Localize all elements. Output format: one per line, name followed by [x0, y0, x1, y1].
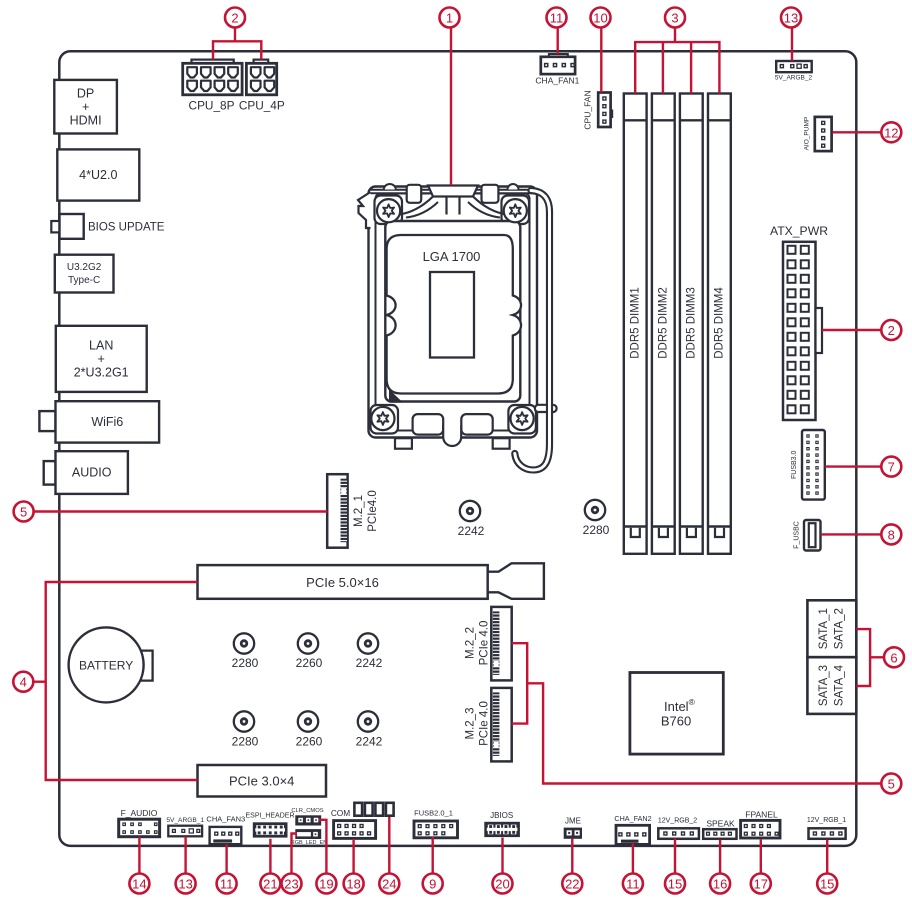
- svg-text:CHA_FAN2: CHA_FAN2: [614, 814, 651, 823]
- svg-text:F_USBC: F_USBC: [794, 521, 801, 549]
- svg-text:+: +: [98, 352, 105, 366]
- svg-text:1: 1: [446, 11, 453, 26]
- svg-text:DDR5 DIMM2: DDR5 DIMM2: [658, 287, 670, 359]
- svg-text:DP: DP: [77, 87, 94, 101]
- svg-text:10: 10: [593, 11, 607, 26]
- svg-text:8: 8: [888, 527, 895, 542]
- svg-text:+: +: [82, 100, 89, 114]
- svg-text:2260: 2260: [296, 656, 323, 670]
- svg-text:6: 6: [890, 650, 897, 665]
- svg-text:3: 3: [671, 11, 678, 26]
- svg-text:WiFi6: WiFi6: [91, 415, 123, 429]
- svg-text:U3.2G2: U3.2G2: [67, 262, 102, 273]
- svg-text:14: 14: [132, 877, 146, 892]
- svg-text:7: 7: [888, 460, 895, 475]
- svg-text:FPANEL: FPANEL: [745, 809, 778, 819]
- svg-text:24: 24: [382, 877, 396, 892]
- svg-text:13: 13: [784, 11, 798, 26]
- svg-text:13: 13: [178, 877, 192, 892]
- svg-text:5: 5: [888, 777, 895, 792]
- svg-text:16: 16: [713, 877, 727, 892]
- svg-text:2*U3.2G1: 2*U3.2G1: [74, 365, 129, 379]
- svg-text:11: 11: [550, 11, 564, 26]
- svg-text:12V_RGB_1: 12V_RGB_1: [807, 817, 846, 824]
- svg-text:PCIe4.0: PCIe4.0: [367, 490, 379, 532]
- svg-text:LGA 1700: LGA 1700: [423, 249, 481, 264]
- svg-text:SATA_4: SATA_4: [834, 664, 846, 706]
- svg-text:22: 22: [565, 877, 579, 892]
- svg-text:BATTERY: BATTERY: [79, 658, 133, 672]
- svg-text:AIO_PUMP: AIO_PUMP: [803, 117, 810, 151]
- svg-text:CPU_8P: CPU_8P: [189, 98, 235, 112]
- svg-text:DDR5 DIMM4: DDR5 DIMM4: [714, 287, 726, 359]
- svg-text:B760: B760: [661, 714, 691, 729]
- svg-text:PCIe 4.0: PCIe 4.0: [478, 701, 490, 746]
- svg-text:2280: 2280: [583, 523, 610, 537]
- svg-text:FUSB3.0: FUSB3.0: [791, 450, 798, 479]
- svg-text:2280: 2280: [232, 734, 259, 748]
- svg-text:PCIe 5.0×16: PCIe 5.0×16: [306, 575, 379, 590]
- svg-text:12: 12: [884, 125, 898, 140]
- svg-text:CHA_FAN3: CHA_FAN3: [206, 815, 245, 824]
- svg-text:23: 23: [284, 877, 298, 892]
- svg-text:19: 19: [319, 877, 333, 892]
- svg-text:2242: 2242: [356, 656, 383, 670]
- svg-text:2260: 2260: [296, 734, 323, 748]
- svg-text:18: 18: [346, 877, 360, 892]
- svg-text:FUSB2.0_1: FUSB2.0_1: [414, 808, 453, 817]
- svg-text:HDMI: HDMI: [70, 113, 102, 127]
- svg-text:CHA_FAN1: CHA_FAN1: [535, 76, 579, 86]
- svg-text:2280: 2280: [232, 656, 259, 670]
- svg-text:PCIe 3.0×4: PCIe 3.0×4: [229, 774, 294, 789]
- svg-text:DDR5 DIMM1: DDR5 DIMM1: [630, 287, 642, 359]
- svg-text:5: 5: [20, 505, 27, 520]
- svg-text:11: 11: [220, 877, 234, 892]
- svg-text:11: 11: [626, 877, 640, 892]
- svg-text:2242: 2242: [458, 524, 485, 538]
- svg-text:12V_RGB_2: 12V_RGB_2: [658, 817, 697, 824]
- svg-text:M.2_3: M.2_3: [464, 708, 476, 740]
- svg-text:SATA_3: SATA_3: [818, 665, 830, 706]
- svg-text:9: 9: [429, 877, 436, 892]
- svg-text:SATA_2: SATA_2: [834, 608, 846, 649]
- svg-text:DDR5 DIMM3: DDR5 DIMM3: [686, 287, 698, 359]
- svg-text:15: 15: [668, 877, 682, 892]
- svg-text:JBIOS: JBIOS: [490, 811, 513, 820]
- svg-text:BIOS UPDATE: BIOS UPDATE: [88, 221, 165, 233]
- svg-text:RGB_LED_EN: RGB_LED_EN: [291, 840, 327, 846]
- svg-text:4: 4: [20, 675, 27, 690]
- svg-text:F_AUDIO: F_AUDIO: [121, 808, 158, 818]
- svg-text:Type-C: Type-C: [68, 275, 100, 286]
- svg-text:PCIe 4.0: PCIe 4.0: [478, 621, 490, 666]
- svg-text:COM: COM: [331, 808, 350, 818]
- svg-text:SATA_1: SATA_1: [818, 608, 830, 649]
- svg-text:4*U2.0: 4*U2.0: [79, 168, 117, 182]
- svg-text:M.2_2: M.2_2: [464, 627, 476, 659]
- svg-text:5V_ARGB_1: 5V_ARGB_1: [166, 817, 204, 824]
- svg-text:ESPI_HEADER: ESPI_HEADER: [245, 813, 294, 820]
- svg-text:AUDIO: AUDIO: [72, 466, 112, 480]
- svg-text:M.2_1: M.2_1: [353, 495, 365, 527]
- svg-text:CPU_FAN: CPU_FAN: [583, 90, 593, 129]
- svg-text:2: 2: [888, 323, 895, 338]
- svg-text:LAN: LAN: [89, 338, 113, 352]
- svg-text:CLR_CMOS: CLR_CMOS: [291, 808, 323, 814]
- svg-text:ATX_PWR: ATX_PWR: [770, 224, 828, 238]
- svg-text:CPU_4P: CPU_4P: [239, 98, 285, 112]
- svg-text:2242: 2242: [356, 734, 383, 748]
- svg-text:17: 17: [754, 877, 768, 892]
- svg-text:20: 20: [495, 877, 509, 892]
- svg-text:JME: JME: [565, 817, 581, 826]
- svg-text:SPEAK: SPEAK: [706, 818, 735, 828]
- svg-text:15: 15: [820, 877, 834, 892]
- svg-text:5V_ARGB_2: 5V_ARGB_2: [775, 75, 813, 82]
- svg-text:21: 21: [263, 877, 277, 892]
- svg-text:2: 2: [231, 11, 238, 26]
